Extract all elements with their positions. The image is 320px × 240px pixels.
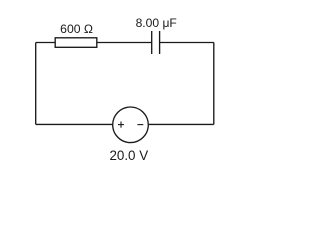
wire: bottom-right segment from source to right rail (148, 123, 214, 125)
minus sign inside source (137, 124, 143, 126)
wire: bottom-left segment from left rail to source (36, 123, 113, 125)
svg-text:20.0 V: 20.0 V (109, 148, 148, 163)
wire: top segment from capacitor to right rail (160, 42, 214, 44)
capacitor C right plate (159, 31, 161, 54)
wire: right vertical rail (213, 43, 215, 125)
capacitor C left plate (151, 31, 153, 54)
svg-text:600 Ω: 600 Ω (60, 22, 93, 36)
wire: top-left segment from left rail to resistor (36, 42, 56, 44)
voltage source V1 (circle) (113, 107, 149, 143)
svg-text:8.00 μF: 8.00 μF (136, 16, 177, 30)
wire: top segment from resistor to capacitor (97, 42, 152, 44)
resistor R body (box) (55, 38, 97, 48)
plus sign inside source (118, 124, 124, 126)
wire: left vertical rail (35, 43, 37, 125)
